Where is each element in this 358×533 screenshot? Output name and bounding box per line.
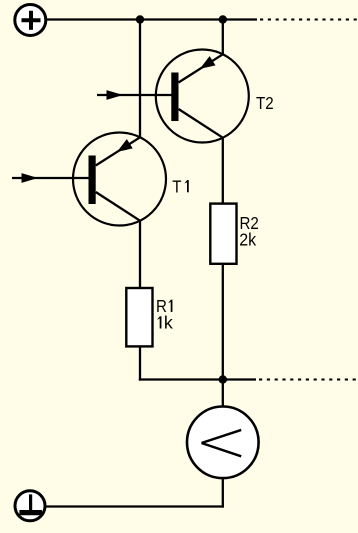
wire T2 collector to R2 (222, 138, 224, 204)
label R1 value 1k (157, 313, 173, 333)
svg-text:T2: T2 (256, 94, 274, 113)
wire ground return (46, 505, 224, 507)
wire meter to ground return (222, 478, 224, 508)
wire bottom rail dotted continuation (259, 379, 358, 381)
node junction top right (219, 15, 227, 23)
resistor R1 (126, 288, 152, 346)
wire R1 to bottom rail (139, 346, 141, 380)
resistor R2 (210, 204, 236, 264)
node junction top left (136, 15, 144, 23)
transistor T2 (156, 50, 249, 143)
transistor T1 (73, 133, 166, 226)
supply terminal + (15, 5, 46, 36)
wire T2 base input (97, 90, 173, 100)
wire top rail (47, 18, 257, 20)
node junction bottom (219, 375, 227, 383)
svg-text:T: T (172, 177, 181, 196)
wire R2 to bottom rail (222, 264, 224, 380)
label T1 (172, 177, 188, 196)
label R1 (156, 297, 172, 316)
ground terminal (15, 491, 45, 521)
wire bottom junction to meter (222, 380, 224, 407)
wire T1 emitter to top rail (139, 20, 141, 138)
wire T1 collector to R1 (139, 221, 141, 288)
wire bottom rail (139, 378, 256, 380)
wire T1 base input (12, 173, 91, 183)
wire top rail dotted continuation (260, 19, 358, 21)
svg-text:k: k (164, 313, 173, 333)
svg-text:2k: 2k (239, 230, 256, 250)
wire T2 emitter to top rail (222, 20, 224, 55)
meter V1 (187, 407, 259, 479)
